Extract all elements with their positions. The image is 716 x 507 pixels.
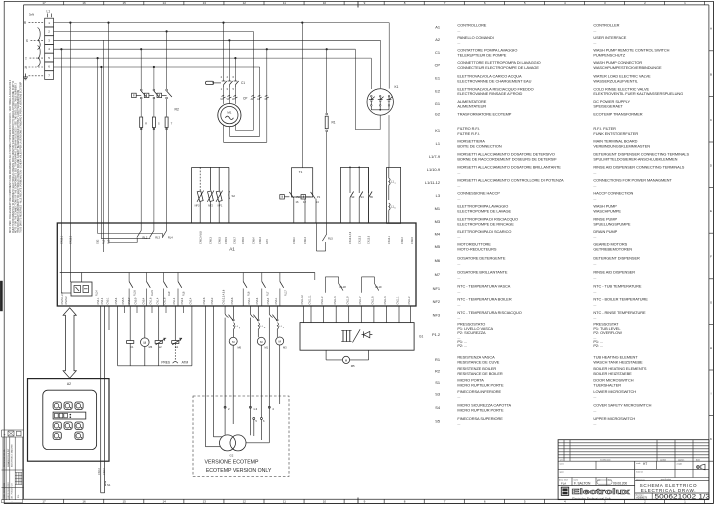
A1 internal RL4 contact xyxy=(98,223,174,240)
rinse pump M3 channel xyxy=(272,306,287,404)
svg-text:DRAIN PUMP: DRAIN PUMP xyxy=(593,229,617,234)
svg-text:CN6.3: CN6.3 xyxy=(210,237,213,244)
svg-text:CN6.4: CN6.4 xyxy=(252,237,255,244)
svg-text:DIWA0E0FGUE.PLT: DIWA0E0FGUE.PLT xyxy=(7,448,10,467)
svg-text:CN13.3: CN13.3 xyxy=(358,235,361,244)
svg-text:FINECORSA INFERIORE: FINECORSA INFERIORE xyxy=(457,389,501,394)
svg-text:A2: A2 xyxy=(67,382,71,386)
svg-text:ELECTRICAL DRAW.: ELECTRICAL DRAW. xyxy=(641,488,697,493)
svg-text:CN5.7: CN5.7 xyxy=(128,297,131,304)
svg-text:M6: M6 xyxy=(238,346,242,350)
svg-text:CN11.3: CN11.3 xyxy=(334,296,337,305)
A1 internal CN15 wires xyxy=(61,223,103,293)
svg-text:R2: R2 xyxy=(435,368,440,373)
svg-text:L1/10-9: L1/10-9 xyxy=(427,167,440,172)
svg-text:RL8: RL8 xyxy=(183,291,186,296)
svg-text:CN5.9: CN5.9 xyxy=(242,237,245,244)
svg-text:GY2: GY2 xyxy=(266,239,269,244)
svg-text:17: 17 xyxy=(42,1,46,5)
svg-text:CN1.8: CN1.8 xyxy=(164,297,167,304)
svg-text:CN3.2,3,4,5,6: CN3.2,3,4,5,6 xyxy=(223,289,226,304)
resistor R2 element a xyxy=(140,117,148,223)
svg-text:ELEKTROVENTIL FUER KALTWASSERS: ELEKTROVENTIL FUER KALTWASSERSPUELUNG xyxy=(593,91,683,96)
svg-text:G1: G1 xyxy=(435,101,440,106)
svg-text:11: 11 xyxy=(283,500,286,504)
svg-text:FINECORSA SUPERIORE: FINECORSA SUPERIORE xyxy=(457,416,503,421)
svg-text:RL17: RL17 xyxy=(284,290,287,296)
svg-text:E: E xyxy=(710,209,712,213)
svg-text:CN5.1: CN5.1 xyxy=(107,297,110,304)
left margin notes text block xyxy=(9,79,22,233)
svg-text:x: x xyxy=(283,327,284,329)
svg-text:P2: ...: P2: ... xyxy=(457,343,467,348)
svg-text:CN6.4: CN6.4 xyxy=(401,237,404,244)
wires A1 to G1 xyxy=(304,306,411,323)
svg-text:GETRIEBEMOTOREN: GETRIEBEMOTOREN xyxy=(593,246,632,251)
first angle projection symbol xyxy=(697,464,705,470)
svg-text:...: ... xyxy=(593,421,596,426)
svg-text:CN15.2: CN15.2 xyxy=(70,235,73,244)
terminal coils L1a L1b box xyxy=(387,167,401,223)
svg-text:...: ... xyxy=(457,234,460,239)
resistor R2 element c xyxy=(165,117,173,223)
svg-text:CN2.4: CN2.4 xyxy=(190,297,193,304)
svg-text:THIS DOCUMENT IS PROPERTY OF E: THIS DOCUMENT IS PROPERTY OF ELECTROLUX … xyxy=(17,89,20,233)
neutral label N xyxy=(25,66,44,70)
svg-text:CN1.2: CN1.2 xyxy=(173,297,176,304)
A1 top pin labels xyxy=(61,231,415,244)
wire motor M1 loop mid to bus N xyxy=(229,67,259,136)
svg-text:CN5.7: CN5.7 xyxy=(234,237,237,244)
svg-text:...: ... xyxy=(593,274,596,279)
svg-text:S5: S5 xyxy=(370,195,374,199)
svg-text:NTC - TEMPERATURA RISCIACQUO: NTC - TEMPERATURA RISCIACQUO xyxy=(457,310,521,315)
svg-text:CONTROLLORE: CONTROLLORE xyxy=(457,23,486,28)
svg-text:3xN: 3xN xyxy=(29,13,34,17)
svg-text:NF1: NF1 xyxy=(433,286,440,291)
svg-text:LOWER MICROSWITCH: LOWER MICROSWITCH xyxy=(593,389,636,394)
electrovalve E2 xyxy=(155,338,166,349)
wire K1 output to L1 terminals xyxy=(388,115,390,167)
A2 display xyxy=(53,412,86,419)
svg-text:RL9: RL9 xyxy=(168,291,171,296)
svg-text:RL2: RL2 xyxy=(103,239,106,244)
svg-text:E2: E2 xyxy=(158,345,162,349)
pressure trap PRES ATM xyxy=(161,344,188,365)
svg-text:M4: M4 xyxy=(435,231,441,236)
svg-text:NF3: NF3 xyxy=(433,312,440,317)
svg-text:CN11.2: CN11.2 xyxy=(321,296,324,305)
svg-text:CN6.2,4,6,8: CN6.2,4,6,8 xyxy=(199,231,202,244)
svg-text:MOTO-REDUCTEURS: MOTO-REDUCTEURS xyxy=(457,246,496,251)
svg-text:TELERUPTEUR DE POMPE: TELERUPTEUR DE POMPE xyxy=(457,52,506,57)
svg-text:L1/7-9: L1/7-9 xyxy=(429,154,440,159)
svg-text:CN3.4: CN3.4 xyxy=(267,297,270,304)
svg-text:CN4.2: CN4.2 xyxy=(103,468,106,475)
svg-text:modification: modification xyxy=(600,459,611,462)
svg-text:C1: C1 xyxy=(130,345,134,349)
title block xyxy=(558,440,709,500)
contactor C1 xyxy=(206,22,246,91)
svg-text:RL15: RL15 xyxy=(151,290,154,296)
svg-text:scale: scale xyxy=(636,463,640,465)
phase label R xyxy=(24,21,44,25)
svg-text:K: K xyxy=(710,437,712,441)
svg-text:WASCHPUMPESTECKVERBINDUNGE: WASCHPUMPESTECKVERBINDUNGE xyxy=(593,65,662,70)
svg-text:BORNE DE RACCORDEMENT DOSEURS: BORNE DE RACCORDEMENT DOSEURS DE DETERSI… xyxy=(457,156,557,161)
svg-text:CP: CP xyxy=(435,62,441,67)
svg-text:DOSATORE DETERGENTE: DOSATORE DETERGENTE xyxy=(457,256,505,261)
svg-text:14: 14 xyxy=(163,500,167,504)
svg-text:...: ... xyxy=(593,301,596,306)
svg-text:...: ... xyxy=(457,260,460,265)
svg-text:RESISTANCE DE BOILER: RESISTANCE DE BOILER xyxy=(457,371,502,376)
svg-text:A1: A1 xyxy=(435,25,440,30)
svg-text:P2: SICUREZZA: P2: SICUREZZA xyxy=(457,330,486,335)
svg-text:M3: M3 xyxy=(435,219,440,224)
svg-text:SPEISEGERAET: SPEISEGERAET xyxy=(593,104,623,109)
svg-text:L1/11-12: L1/11-12 xyxy=(425,180,440,185)
svg-text:ELECTROVANNE RINSAGE A FROID: ELECTROVANNE RINSAGE A FROID xyxy=(457,91,522,96)
wire bus S (L1.3) xyxy=(54,39,381,41)
svg-text:...: ... xyxy=(593,234,596,239)
svg-text:PUMPENSCHUTZ: PUMPENSCHUTZ xyxy=(593,52,625,57)
svg-text:CN4.4: CN4.4 xyxy=(98,468,101,475)
svg-text:L1: L1 xyxy=(436,141,440,146)
svg-text:E1: E1 xyxy=(435,76,440,81)
svg-text:CN6.4: CN6.4 xyxy=(293,237,296,244)
svg-text:K1: K1 xyxy=(395,85,399,89)
pressure switch P2 contact xyxy=(280,192,300,223)
svg-text:DOSATORE BRILLANTANTE: DOSATORE BRILLANTANTE xyxy=(457,270,507,275)
svg-text:MICRO RUPTEUR PORTE: MICRO RUPTEUR PORTE xyxy=(457,382,504,387)
svg-text:CN13.2,4,6: CN13.2,4,6 xyxy=(349,231,352,244)
pressostat P1/P2 box xyxy=(292,22,313,198)
svg-text:...: ... xyxy=(593,315,596,320)
svg-text:09.06.200: 09.06.200 xyxy=(613,481,627,485)
dispenser motor M6 small xyxy=(141,338,153,349)
svg-text:K1: K1 xyxy=(435,128,440,133)
svg-text:16: 16 xyxy=(82,500,86,504)
thermistor NF2 xyxy=(207,167,214,223)
svg-text:NF2: NF2 xyxy=(433,299,440,304)
wires A1 to component row xyxy=(109,306,192,366)
svg-text:G2: G2 xyxy=(230,453,234,457)
svg-text:QUESTO DOCUMENTO E' DI PROPRIE: QUESTO DOCUMENTO E' DI PROPRIETA' ELECTR… xyxy=(12,80,15,233)
svg-text:T1: T1 xyxy=(299,170,303,174)
relay contact RL3 (mid) xyxy=(144,66,159,117)
svg-text:L3: L3 xyxy=(436,193,440,198)
Electrolux logo xyxy=(561,487,631,500)
svg-text:13: 13 xyxy=(203,500,207,504)
wire drop to A1 pin x108.5 xyxy=(107,22,109,243)
svg-text:S5: S5 xyxy=(435,418,440,423)
svg-text:COVER SAFETY MICROSWITCH: COVER SAFETY MICROSWITCH xyxy=(593,403,651,408)
svg-text:S1: S1 xyxy=(107,483,111,487)
A2 keypad buttons row3 xyxy=(53,432,83,439)
svg-text:weight: weight xyxy=(677,463,683,466)
svg-text:M5: M5 xyxy=(435,244,440,249)
svg-text:CN11.9: CN11.9 xyxy=(346,296,349,305)
wire bus line 2 (L1.2) xyxy=(54,30,254,32)
svg-text:...: ... xyxy=(457,394,460,399)
A2 keypad buttons row2 xyxy=(53,422,83,429)
G2 terminal 2 xyxy=(224,406,230,435)
svg-text:CONTROLLER: CONTROLLER xyxy=(593,23,619,28)
svg-text:BOILER HEIZSTAEBE: BOILER HEIZSTAEBE xyxy=(593,371,632,376)
svg-text:NF2: NF2 xyxy=(208,204,213,207)
svg-text:11: 11 xyxy=(283,1,286,5)
svg-text:F. SALTON: F. SALTON xyxy=(574,481,591,485)
wire K1 common loop to bus4 xyxy=(355,49,380,129)
svg-text:BOITE DE CONNECTION: BOITE DE CONNECTION xyxy=(457,143,502,148)
svg-text:P1: P1 xyxy=(317,195,321,199)
svg-text:USER INTERFACE: USER INTERFACE xyxy=(593,35,626,40)
svg-text:13: 13 xyxy=(203,1,207,5)
svg-text:15: 15 xyxy=(122,1,126,5)
svg-text:G1: G1 xyxy=(419,335,423,339)
svg-text:FUNK ENTSTOERFILTER: FUNK ENTSTOERFILTER xyxy=(593,131,638,136)
svg-text:P2: P2 xyxy=(297,195,301,199)
svg-text:RL16: RL16 xyxy=(134,290,137,296)
svg-text:S1: S1 xyxy=(435,380,440,385)
svg-text:P2: ...: P2: ... xyxy=(593,343,603,348)
svg-text:CN3.1: CN3.1 xyxy=(275,297,278,304)
svg-text:ECOTEMP TRANSFORMER: ECOTEMP TRANSFORMER xyxy=(593,112,642,117)
svg-text:M6: M6 xyxy=(149,345,153,349)
svg-text:B: B xyxy=(710,72,712,76)
thermistor NF1 xyxy=(216,167,223,223)
resistor R2 element b xyxy=(152,117,160,223)
left margin file block xyxy=(2,430,24,503)
svg-text:CONNECTEUR ELECTROPOMPE DE LAV: CONNECTEUR ELECTROPOMPE DE LAVAGE xyxy=(457,65,539,70)
A1 bottom pin labels xyxy=(61,289,411,304)
svg-text:NF1: NF1 xyxy=(218,204,223,207)
wire CN4 to S1 xyxy=(98,306,106,493)
svg-text:R1: R1 xyxy=(435,357,440,362)
svg-text:CN11.11: CN11.11 xyxy=(309,295,312,305)
svg-text:S4: S4 xyxy=(360,195,364,199)
door microswitch S1 xyxy=(105,481,111,487)
svg-text:CN15.1,2,5: CN15.1,2,5 xyxy=(61,292,64,305)
svg-text:...: ... xyxy=(457,315,460,320)
svg-text:ALIMENTATEUR: ALIMENTATEUR xyxy=(457,104,486,109)
drawing number 500621002 1/3 xyxy=(636,493,711,500)
svg-text:CN6.3: CN6.3 xyxy=(304,237,307,244)
svg-text:12: 12 xyxy=(243,1,247,5)
svg-text:R2: R2 xyxy=(175,108,179,112)
svg-text:1-3: 1-3 xyxy=(253,407,257,411)
svg-text:A1: A1 xyxy=(229,247,235,252)
svg-text:NTC - RINSE TEMPERATURE: NTC - RINSE TEMPERATURE xyxy=(593,310,646,315)
svg-text:CONNESSIONE HACCP: CONNESSIONE HACCP xyxy=(457,191,500,196)
svg-text:TOUS DROITS RESERVES - ALLE RE: TOUS DROITS RESERVES - ALLE RECHTE VORBE… xyxy=(19,81,22,233)
svg-text:C1: C1 xyxy=(241,81,245,85)
svg-text:M3: M3 xyxy=(283,346,287,350)
svg-text:CN1.6: CN1.6 xyxy=(150,297,153,304)
svg-text:...: ... xyxy=(457,182,460,187)
resistor R2 label xyxy=(175,108,179,112)
svg-text:CN6.5: CN6.5 xyxy=(218,237,221,244)
svg-text:CN3.6: CN3.6 xyxy=(231,297,234,304)
svg-text:M1: M1 xyxy=(435,206,440,211)
svg-text:RINSE AID DISPENSER CONNECTING: RINSE AID DISPENSER CONNECTING TERMINALS xyxy=(593,165,684,170)
A1 internal RL5 contact xyxy=(316,223,333,251)
G2 primary feed wires xyxy=(206,306,223,447)
sheet centre fold marks xyxy=(357,1,359,503)
svg-text:...: ... xyxy=(593,27,596,32)
svg-text:S3: S3 xyxy=(351,195,355,199)
svg-text:M: M xyxy=(143,341,146,345)
svg-text:CN1.4: CN1.4 xyxy=(156,297,159,304)
svg-text:...: ... xyxy=(593,260,596,265)
svg-text:CP: CP xyxy=(243,97,247,101)
svg-text:ELECTROVANNE DE CHARGEMENT EAU: ELECTROVANNE DE CHARGEMENT EAU xyxy=(457,78,531,83)
svg-text:appr.: appr. xyxy=(560,472,565,474)
svg-text:ELECTROPOMPE DE RINCAGE: ELECTROPOMPE DE RINCAGE xyxy=(457,221,514,226)
svg-text:WASCH TANK HEIZSTAEBE: WASCH TANK HEIZSTAEBE xyxy=(593,359,643,364)
svg-text:ATM: ATM xyxy=(182,360,189,364)
svg-text:A3 - FOGLIO 1/3: A3 - FOGLIO 1/3 xyxy=(11,482,14,498)
svg-text:CN5.3: CN5.3 xyxy=(115,297,118,304)
svg-text:CN5.5: CN5.5 xyxy=(122,297,125,304)
svg-text:RL7: RL7 xyxy=(266,291,269,296)
svg-text:Electrolux: Electrolux xyxy=(572,487,631,496)
svg-text:specification: specification xyxy=(661,478,671,481)
svg-text:S3: S3 xyxy=(435,391,440,396)
svg-text:12: 12 xyxy=(243,500,247,504)
wire bus line 4 (L1.4) xyxy=(54,48,356,50)
svg-text:CN3.1: CN3.1 xyxy=(248,297,251,304)
svg-text:HACCP CONNECTION: HACCP CONNECTION xyxy=(593,191,633,196)
svg-text:M5: M5 xyxy=(351,364,355,368)
svg-text:T: T xyxy=(25,57,27,61)
component rail xyxy=(118,365,192,367)
RFI filter K1 xyxy=(367,23,399,116)
svg-text:G2: G2 xyxy=(435,111,440,116)
resistor R1 xyxy=(325,48,336,223)
motor M1 wash pump xyxy=(218,104,241,127)
svg-text:CN11.7: CN11.7 xyxy=(359,296,362,305)
svg-text:AD98679: AD98679 xyxy=(636,495,647,499)
svg-text:CN4.1: CN4.1 xyxy=(97,297,100,304)
svg-text:PANELLO COMANDI: PANELLO COMANDI xyxy=(457,35,493,40)
svg-text:RL5: RL5 xyxy=(328,237,333,241)
pressure switch P1 contact xyxy=(301,192,321,223)
svg-text:VERSIONE ECOTEMP: VERSIONE ECOTEMP xyxy=(205,459,259,465)
svg-text:S: S xyxy=(26,39,28,43)
gear motor M5 xyxy=(326,350,369,368)
svg-text:y: y xyxy=(239,327,240,329)
wash pump M1 channel xyxy=(253,306,268,418)
svg-text:FILTRE R.F.I.: FILTRE R.F.I. xyxy=(457,131,480,136)
svg-text:FLA: FLA xyxy=(561,481,566,485)
dispenser M6 channel xyxy=(229,306,242,424)
svg-text:DETERGENT DISPENSER: DETERGENT DISPENSER xyxy=(593,256,640,261)
svg-text:CN5.9: CN5.9 xyxy=(135,297,138,304)
svg-text:REV.0 09.06.2003: REV.0 09.06.2003 xyxy=(8,481,10,498)
A1 output relay contacts xyxy=(129,273,287,307)
electrovalve E1 xyxy=(172,338,182,349)
svg-text:F: F xyxy=(710,255,712,259)
svg-text:MORSETTI ALLACCIAMENTO DOSATOR: MORSETTI ALLACCIAMENTO DOSATORE BRILLANT… xyxy=(457,165,561,170)
svg-text:NTC - TUB TEMPERATURE: NTC - TUB TEMPERATURE xyxy=(593,284,641,289)
left margin fold mark xyxy=(0,281,2,311)
wire drop to A1 pin x101.4 xyxy=(100,66,102,239)
svg-text:CN3.2: CN3.2 xyxy=(211,297,214,304)
svg-text:P1.2: P1.2 xyxy=(432,332,440,337)
right margin row letters xyxy=(709,1,714,503)
svg-text:M1: M1 xyxy=(265,346,269,350)
svg-text:...: ... xyxy=(593,182,596,187)
label VERSIONE ECOTEMP xyxy=(205,459,272,474)
svg-text:...: ... xyxy=(593,288,596,293)
A1 internal RL19 contact xyxy=(362,277,383,293)
svg-text:CN2.6: CN2.6 xyxy=(203,297,206,304)
svg-text:RL6: RL6 xyxy=(248,291,251,296)
wire drop to A1 pin x97.6 xyxy=(97,57,99,234)
svg-text:CN11.8: CN11.8 xyxy=(372,296,375,305)
wire drop CN15.1 xyxy=(69,22,71,224)
connector CP pins A2 A1 6X xyxy=(251,95,269,101)
svg-text:CN4.2: CN4.2 xyxy=(101,297,104,304)
svg-text:NOTE: FOR THE CONNECTIONS OF T: NOTE: FOR THE CONNECTIONS OF THE COMPONE… xyxy=(14,82,17,233)
wire motor M1 loop left to bus4 xyxy=(224,48,268,142)
svg-text:MICRO RUPTEUR PORTE: MICRO RUPTEUR PORTE xyxy=(457,407,504,412)
terminal block L1 xyxy=(29,10,54,80)
thermistor NF3 xyxy=(195,167,204,223)
wire bus N (L1.6) xyxy=(54,66,260,68)
svg-text:L1: L1 xyxy=(47,10,51,14)
svg-text:C62: C62 xyxy=(97,239,100,244)
relay contact RL2 (left) xyxy=(132,48,147,116)
ecotemp transformer G2 box xyxy=(193,396,289,477)
svg-text:VERBINDUNGSKLEMMKASTEN: VERBINDUNGSKLEMMKASTEN xyxy=(593,143,650,148)
svg-text:S2: S2 xyxy=(232,194,236,198)
svg-text:CN13.5: CN13.5 xyxy=(368,235,371,244)
svg-text:HT: HT xyxy=(643,462,647,466)
svg-text:C1: C1 xyxy=(435,50,440,55)
svg-text:M7: M7 xyxy=(435,272,440,277)
limit switches S3 S4 S5 box xyxy=(341,167,374,224)
power supply G1 xyxy=(300,323,423,351)
svg-text:6X: 6X xyxy=(265,99,268,101)
svg-text:ELECTROPOMPE DE LAVAGE: ELECTROPOMPE DE LAVAGE xyxy=(457,208,511,213)
svg-text:R1: R1 xyxy=(332,121,336,125)
G2 terminal 6 xyxy=(260,418,265,441)
svg-text:17: 17 xyxy=(42,500,46,504)
relay RL1 module inside A1 xyxy=(71,273,99,297)
svg-text:UPPER MICROSWITCH: UPPER MICROSWITCH xyxy=(593,416,635,421)
svg-text:CN6.3: CN6.3 xyxy=(259,237,262,244)
phase label T xyxy=(25,46,43,67)
dispenser channels wires to G2 xyxy=(225,306,273,408)
transformer G2 windings xyxy=(220,435,247,457)
svg-text:RL4: RL4 xyxy=(168,236,173,240)
svg-text:H: H xyxy=(710,346,712,350)
A1 internal supply rail xyxy=(60,273,315,281)
svg-text:MORSETTI ALLACCIAMENTO CONTROL: MORSETTI ALLACCIAMENTO CONTROLLORE DI PO… xyxy=(457,178,564,183)
svg-text:...: ... xyxy=(593,394,596,399)
wire drop CN15.2 xyxy=(60,48,62,223)
legend component table xyxy=(425,23,690,426)
svg-text:500621002 SCH.EL: 500621002 SCH.EL xyxy=(4,448,6,467)
svg-text:CN2.2: CN2.2 xyxy=(181,297,184,304)
phase label S xyxy=(26,28,44,50)
wire drop to A1 pin x103.5 xyxy=(103,40,105,223)
NTC sensors S2 box xyxy=(192,167,236,223)
svg-text:material: material xyxy=(636,471,643,474)
